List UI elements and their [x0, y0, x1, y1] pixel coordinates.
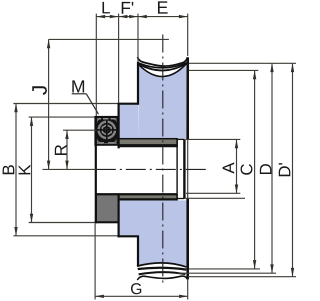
label J	[32, 86, 47, 95]
C dimension line	[254, 70, 256, 269]
G right extension line	[187, 279, 189, 299]
label G	[131, 283, 141, 294]
A top extension line	[186, 138, 241, 140]
bottom flange lip arc 3 (arch)	[139, 272, 186, 274]
B dimension line	[15, 104, 17, 236]
bottom flange lip inner arc (blue boundary)	[137, 263, 186, 267]
label A	[223, 162, 235, 173]
top flange outline (hooked corners, mid sag)	[137, 57, 187, 66]
bottom flange outline (hooked corners, mid sag)	[137, 276, 187, 280]
web left face (upper)	[117, 104, 119, 149]
top flange lip arc 3	[139, 64, 186, 71]
label F'	[122, 2, 130, 14]
bore step vertical (sleeve right end)	[176, 140, 178, 200]
web top outline	[118, 103, 140, 105]
bottom flange lip arc 2	[138, 268, 187, 270]
top flange lip inner arc (blue boundary)	[139, 64, 186, 76]
label L	[102, 2, 109, 14]
D' bottom extension line	[188, 276, 296, 278]
J dimension line	[48, 39, 50, 169]
vertical centerline of tooth section (dash-dot)	[162, 35, 164, 285]
F' arrows	[119, 15, 128, 18]
label E	[158, 1, 168, 13]
A dimension line	[236, 139, 238, 193]
M leader line to setscrew	[86, 94, 98, 114]
R dimension line	[66, 130, 68, 169]
pulley body upper web (blue section)	[119, 105, 138, 139]
label D	[260, 164, 272, 174]
hub left face	[95, 116, 97, 223]
L left extension line	[95, 14, 97, 116]
pulley upper tooth/flange column (blue section)	[138, 64, 187, 139]
web left face (lower)	[117, 194, 119, 237]
right face of pulley	[186, 57, 189, 140]
centerline solid extension to left (J/R datum)	[43, 168, 96, 170]
L/F' shared extension line	[118, 14, 120, 103]
D bottom extension line	[178, 272, 277, 274]
G left extension line	[94, 224, 96, 300]
top sleeve strip (gray section)	[119, 139, 177, 147]
body bore top line (A seat)	[177, 138, 184, 140]
label K	[19, 165, 31, 175]
B bottom extension line	[13, 235, 117, 237]
B top extension line	[13, 103, 117, 105]
pulley body lower web (blue section)	[119, 200, 138, 236]
setscrew M (socket set screw seen in hub)	[95, 117, 117, 145]
K top extension line	[29, 116, 95, 118]
column left face (lower)	[137, 236, 139, 266]
C bottom extension line	[189, 268, 260, 270]
D' dimension line	[292, 63, 294, 276]
C top extension line	[189, 69, 258, 71]
web bottom outline	[118, 235, 140, 237]
D/D' top extension line	[189, 62, 296, 64]
top sleeve strip bottom heavy line	[119, 144, 177, 146]
hub bore bottom line	[96, 193, 177, 195]
bottom sleeve strip bottom heavy line	[119, 198, 177, 200]
J top extension line	[49, 38, 169, 40]
label R	[55, 145, 67, 155]
A bottom extension line	[186, 192, 240, 194]
horizontal centerline (axis, dash-dot)	[96, 168, 206, 170]
lower hub block (gray section)	[96, 195, 118, 223]
R top extension line	[63, 129, 97, 131]
top dimension line L F' E	[96, 16, 187, 18]
D dimension line	[271, 63, 273, 273]
top flange lip arc 2	[138, 63, 186, 68]
E right extension line	[187, 14, 189, 56]
label M	[72, 80, 84, 92]
body bore bottom line	[177, 198, 184, 200]
label B	[3, 165, 15, 174]
hub bottom outline	[95, 221, 119, 223]
bore step vertical (counterbore)	[183, 139, 185, 198]
G dimension line	[95, 295, 188, 297]
E arrows	[138, 15, 147, 18]
counterbore corner extension line	[184, 197, 245, 199]
M label underline	[72, 93, 87, 95]
column left face (upper)	[137, 62, 139, 105]
bottom sleeve strip (gray section)	[119, 195, 177, 200]
L arrows	[96, 15, 105, 18]
F'/E shared extension line	[137, 14, 139, 61]
K dimension line	[31, 117, 33, 222]
label D'	[279, 166, 291, 176]
pulley lower tooth/flange column (blue section)	[137, 200, 186, 267]
label C	[241, 164, 253, 175]
hub top outline	[95, 116, 119, 118]
K bottom extension line	[29, 222, 95, 224]
